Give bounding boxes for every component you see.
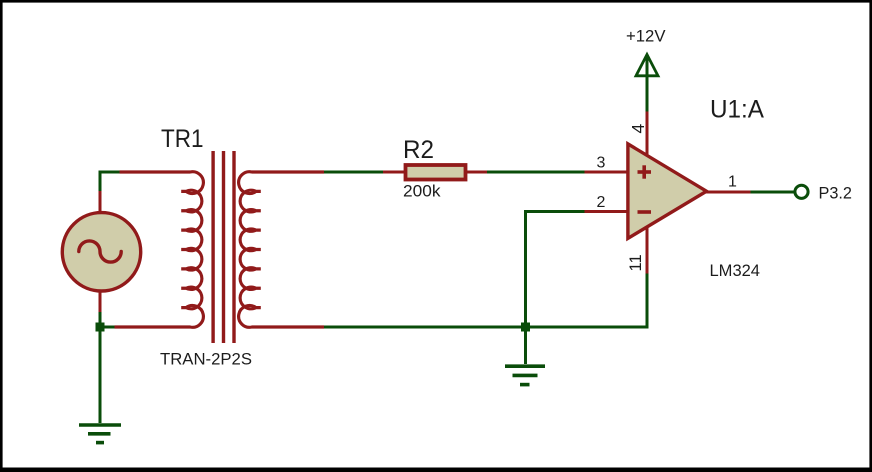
svg-text:TRAN-2P2S: TRAN-2P2S <box>160 351 252 369</box>
svg-text:2: 2 <box>597 194 606 211</box>
svg-text:11: 11 <box>627 254 645 271</box>
svg-text:U1:A: U1:A <box>710 96 764 124</box>
svg-text:+12V: +12V <box>626 28 666 46</box>
svg-text:TR1: TR1 <box>161 125 204 153</box>
svg-text:4: 4 <box>628 124 648 134</box>
svg-text:3: 3 <box>597 155 606 172</box>
svg-text:R2: R2 <box>403 136 434 164</box>
svg-text:1: 1 <box>728 174 737 191</box>
svg-text:200k: 200k <box>403 183 441 201</box>
svg-text:LM324: LM324 <box>710 261 761 280</box>
svg-text:P3.2: P3.2 <box>819 184 853 203</box>
